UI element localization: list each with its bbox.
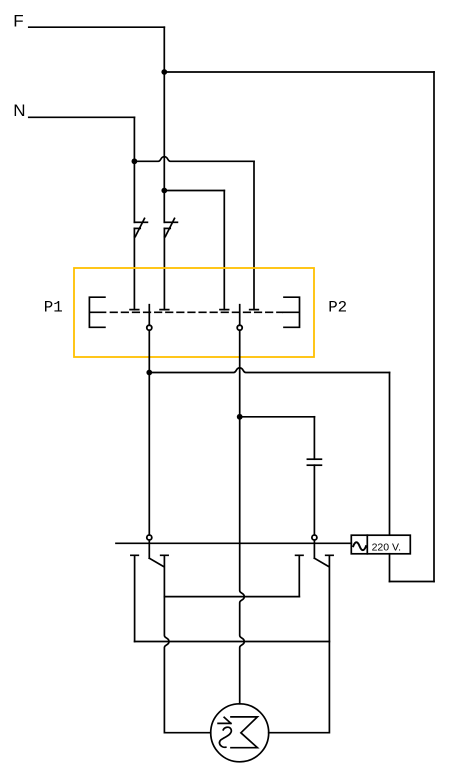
- source 220V box: [351, 535, 410, 554]
- wire F lead: [29, 26, 165, 28]
- svg-text:P2: P2: [328, 298, 347, 316]
- K2 right fixed contact (to motor right): [269, 555, 333, 732]
- wire top branch to right side: [164, 71, 434, 73]
- capacitor C1: [307, 459, 321, 465]
- wire source bottom lead: [389, 554, 391, 582]
- svg-text:N: N: [13, 101, 25, 120]
- terminal T-bar: [160, 309, 169, 311]
- wire S1 bottom: [133, 237, 135, 310]
- K1 right fixed contact (to motor left): [161, 555, 211, 732]
- wire capacitor top lead: [313, 417, 315, 459]
- wire crossover mid: [164, 596, 299, 598]
- contact circle left on bus: [147, 535, 152, 540]
- wire crossover low: [135, 641, 330, 643]
- contact P2 circle: [237, 325, 242, 330]
- wire N branch with hop over F line: [134, 157, 254, 162]
- K1 blade: [149, 558, 163, 566]
- wire P2 contact center line down to motor: [240, 331, 245, 704]
- motor angular three: [231, 717, 257, 748]
- wire F vertical: [163, 27, 165, 222]
- svg-text:P1: P1: [44, 298, 63, 316]
- wire S2 bottom: [163, 237, 165, 310]
- junction on N line: [132, 158, 138, 164]
- wire capacitor bottom lead: [313, 465, 315, 534]
- svg-text:220 V.: 220 V.: [372, 542, 401, 554]
- linkage bracket right: [283, 297, 300, 327]
- svg-text:F: F: [13, 11, 23, 30]
- motor arrow: [218, 717, 231, 723]
- terminal T-bar: [130, 309, 139, 311]
- contact P2 stem: [239, 305, 241, 325]
- wire source top lead: [389, 373, 391, 536]
- changeover switch K1 left: stem: [148, 540, 150, 558]
- K1 left fixed contact: [131, 555, 138, 641]
- K2 left fixed contact: [296, 555, 303, 596]
- switch S2 (NC limit contact): [164, 218, 177, 236]
- wire branch to capacitor: [240, 416, 315, 418]
- wire branch down to station: [223, 191, 225, 310]
- contact circle right on bus: [312, 535, 317, 540]
- junction capacitor branch: [237, 414, 243, 420]
- junction below station: [146, 370, 152, 376]
- terminal T-bar: [250, 309, 259, 311]
- pushbutton station enclosure: [74, 268, 314, 357]
- wire bottom right to transformer: [390, 581, 435, 583]
- wire right side vertical: [433, 72, 435, 582]
- junction on F line lower: [161, 188, 167, 194]
- motor squiggle: [219, 727, 231, 747]
- bus wire: [116, 542, 351, 544]
- switch S1 (NC limit contact): [134, 218, 147, 236]
- source 220V divider: [366, 535, 368, 554]
- changeover switch K2 right: stem: [313, 540, 315, 558]
- junction on F line: [161, 69, 167, 75]
- terminal T-bar: [220, 309, 229, 311]
- wire branch to source with hop: [149, 368, 389, 373]
- linkage dashed line: [111, 311, 283, 313]
- K2 blade: [314, 558, 328, 566]
- contact P1 stem: [148, 305, 150, 325]
- source AC sine symbol: [353, 542, 366, 550]
- wire branch down to station: [253, 161, 255, 309]
- wire P1 contact down to bus: [148, 331, 150, 535]
- wire branch right: [164, 190, 224, 192]
- linkage bracket left: [89, 297, 105, 327]
- motor M: [211, 704, 269, 762]
- wire N vertical: [133, 117, 135, 222]
- contact P1 circle: [147, 325, 152, 330]
- wire N lead: [29, 116, 135, 118]
